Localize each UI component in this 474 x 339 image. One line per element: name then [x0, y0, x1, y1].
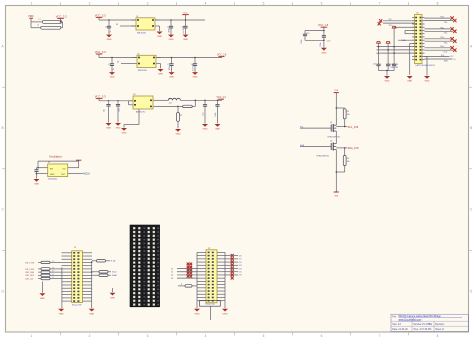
ground	[158, 64, 164, 76]
power port VCC_2V8	[182, 12, 188, 20]
svg-text:GND: GND	[110, 297, 115, 299]
svg-text:2: 2	[89, 1, 91, 5]
svg-text:B: B	[470, 126, 472, 130]
svg-text:IMX219 Camera Lattice MachXO2: IMX219 Camera Lattice MachXO2 Bridge	[399, 315, 442, 318]
svg-text:Raspi CSI: Raspi CSI	[72, 304, 82, 306]
capacitor C5	[168, 57, 174, 72]
svg-text:R1: R1	[180, 115, 182, 117]
power port VDD	[28, 14, 34, 22]
svg-text:NTR4003NT1G: NTR4003NT1G	[328, 136, 341, 138]
svg-text:GND: GND	[183, 39, 188, 41]
svg-text:IO0: IO0	[239, 255, 242, 257]
svg-text:GND: GND	[89, 313, 94, 315]
capacitor C3	[182, 19, 188, 34]
svg-text:D2: D2	[171, 275, 173, 277]
inductor L4	[158, 98, 223, 104]
svg-text:GND: GND	[169, 77, 174, 79]
svg-text:C12: C12	[306, 33, 309, 35]
wire 3.3V rail	[99, 19, 205, 21]
svg-text:TX2-: TX2-	[444, 43, 448, 45]
wire input rail	[99, 100, 133, 102]
svg-text:P1: P1	[74, 247, 76, 249]
svg-text:AP3417C: AP3417C	[136, 110, 146, 113]
svg-text:R4: R4	[347, 158, 349, 160]
svg-text:L1: L1	[39, 19, 41, 21]
svg-text:CSI1_CN: CSI1_CN	[25, 278, 34, 280]
svg-text:100n: 100n	[301, 40, 303, 44]
svg-text:100n: 100n	[119, 108, 121, 112]
svg-text:1: 1	[31, 1, 33, 5]
wire SCA	[398, 39, 415, 42]
wire top rail	[38, 161, 79, 168]
wire	[336, 153, 338, 193]
ground	[215, 109, 221, 131]
svg-text:File:: File:	[392, 317, 397, 319]
capacitor C10	[215, 100, 219, 117]
resistor R7	[92, 274, 117, 277]
op-amp U1 regulator MIC5205	[132, 16, 160, 35]
power port VCC_1.8	[334, 90, 339, 124]
ground	[183, 35, 189, 42]
svg-text:GND: GND	[157, 36, 162, 38]
wire	[210, 306, 212, 320]
svg-text:100n: 100n	[320, 43, 322, 47]
svg-text:P2: P2	[208, 248, 210, 250]
svg-text:TX1+: TX1+	[440, 27, 444, 29]
svg-text:GND: GND	[203, 129, 208, 131]
svg-text:Raspi 15p: Raspi 15p	[206, 304, 216, 306]
wire	[61, 22, 63, 28]
wire	[425, 56, 428, 75]
svg-text:R3: R3	[347, 111, 349, 113]
svg-text:GND: GND	[110, 77, 115, 79]
svg-text:U3: U3	[133, 94, 135, 96]
svg-text:VCC_3.3: VCC_3.3	[95, 13, 106, 17]
capacitor C2	[167, 19, 173, 34]
wire H2	[377, 49, 415, 51]
svg-text:D1: D1	[171, 272, 173, 274]
mounting box	[200, 301, 221, 307]
ground	[39, 282, 45, 300]
label Oscillator	[49, 155, 62, 159]
ground	[34, 174, 40, 186]
svg-text:GND: GND	[321, 52, 326, 54]
ground	[157, 26, 163, 38]
wire cap commons	[379, 68, 395, 76]
svg-text:10k: 10k	[347, 161, 350, 163]
title block	[391, 314, 469, 331]
wire right bus	[91, 261, 93, 308]
ground	[110, 288, 116, 299]
capacitor C13	[320, 31, 330, 47]
svg-text:2: 2	[89, 334, 91, 338]
capacitor C6	[191, 57, 197, 72]
svg-text:IO3: IO3	[239, 265, 242, 267]
wire EN input	[117, 62, 137, 64]
svg-text:3: 3	[147, 334, 149, 338]
svg-text:6: 6	[321, 334, 323, 338]
label SDA_1V8	[336, 147, 359, 150]
svg-text:B: B	[2, 126, 4, 130]
svg-text:VD: VD	[63, 168, 66, 170]
capacitor C12	[301, 32, 309, 44]
svg-text:X1: X1	[48, 162, 50, 164]
svg-text:GND: GND	[107, 39, 112, 41]
svg-text:GND: GND	[122, 133, 127, 135]
svg-text:VCC_3.3: VCC_3.3	[95, 50, 106, 54]
transistor Q2 NTR4003	[317, 141, 337, 158]
wire EN input	[116, 24, 136, 26]
svg-text:TDI: TDI	[389, 19, 392, 21]
svg-text:Oscillator: Oscillator	[49, 155, 62, 159]
svg-text:VCC_3.3: VCC_3.3	[95, 95, 106, 99]
capacitor C11	[34, 168, 38, 175]
wire	[128, 101, 130, 105]
svg-text:7: 7	[379, 334, 381, 338]
svg-text:GND: GND	[34, 184, 39, 186]
ground	[89, 309, 95, 316]
svg-text:4: 4	[205, 334, 207, 338]
svg-text:CSI_P 1V8: CSI_P 1V8	[25, 262, 34, 264]
ground	[321, 48, 327, 55]
transistor Q1 NTR4003	[328, 122, 341, 138]
svg-text:1u: 1u	[113, 68, 115, 70]
svg-text:GND: GND	[193, 77, 198, 79]
op-amp U4 LATTICE MACHXO2	[412, 13, 436, 67]
power port VCC_3.3	[95, 13, 106, 20]
svg-text:V1.1 BBG: V1.1 BBG	[422, 324, 432, 326]
power port VCC_3.3	[56, 14, 67, 22]
wire	[335, 134, 337, 143]
port symbol VCC2	[386, 41, 390, 62]
svg-text:C14: C14	[373, 64, 376, 66]
power port 3V3 bottom	[334, 192, 339, 197]
op-amp P1 camera connector	[62, 247, 93, 306]
power port VCC_2.8	[217, 55, 227, 58]
svg-text:GND: GND	[158, 74, 163, 76]
svg-text:470p: 470p	[169, 28, 171, 32]
svg-text:5: 5	[263, 1, 265, 5]
ferrite bead L1	[39, 19, 62, 24]
svg-text:10u: 10u	[103, 109, 105, 112]
svg-text:C13: C13	[327, 41, 330, 43]
svg-text:U2: U2	[137, 54, 139, 56]
wire I2C pair	[425, 55, 457, 63]
svg-text:IO5: IO5	[239, 272, 242, 274]
ground	[109, 72, 115, 79]
svg-text:Q1: Q1	[330, 122, 332, 124]
svg-text:IO1: IO1	[239, 259, 242, 261]
power port VCC_1.8	[318, 24, 329, 30]
svg-text:IO2: IO2	[239, 262, 242, 264]
svg-text:CLK-: CLK-	[443, 52, 447, 54]
wire	[305, 30, 325, 32]
svg-text:CLK+: CLK+	[440, 46, 445, 48]
svg-text:C4: C4	[108, 64, 110, 66]
svg-text:TX2+: TX2+	[440, 37, 444, 39]
wire FB line	[158, 106, 183, 108]
power port	[76, 159, 81, 162]
capacitor C15	[386, 62, 399, 68]
svg-text:TX0-: TX0-	[444, 22, 448, 24]
op-amp U2 regulator MIC5205	[133, 54, 161, 73]
svg-text:EN: EN	[50, 168, 53, 170]
svg-text:7: 7	[379, 1, 381, 5]
svg-text:U1: U1	[136, 16, 138, 18]
op-amp U3 buck AP3417C	[129, 94, 158, 113]
svg-text:C5: C5	[168, 64, 170, 66]
svg-text:Revision:: Revision:	[435, 324, 445, 326]
node TDI no-ERC pair	[378, 19, 415, 27]
no-ERC marks right	[231, 254, 234, 280]
wire SCL gate	[300, 126, 331, 128]
svg-text:IO4: IO4	[239, 268, 242, 270]
svg-text:VDD: VDD	[28, 14, 34, 18]
ground	[202, 109, 208, 131]
svg-text:6: 6	[321, 1, 323, 5]
wire pair TX0+/TX0-	[425, 16, 457, 24]
svg-text:2u2 6V3: 2u2 6V3	[183, 26, 185, 33]
svg-text:L2: L2	[37, 25, 39, 27]
svg-text:LATTICE MACHXO2: LATTICE MACHXO2	[416, 64, 436, 67]
ground	[175, 129, 181, 136]
power port VCC_3.3	[95, 95, 106, 101]
ground	[106, 108, 112, 129]
svg-text:MIC5205: MIC5205	[137, 33, 147, 35]
svg-text:MCLK: MCLK	[83, 173, 90, 176]
ground	[192, 72, 198, 79]
resistor R5	[92, 260, 116, 263]
svg-text:100n 16V: 100n 16V	[390, 67, 398, 69]
resistor network CSI left	[25, 261, 62, 281]
svg-text:SCL0: SCL0	[112, 272, 117, 274]
svg-text:GND: GND	[425, 81, 430, 83]
ground	[58, 309, 64, 316]
svg-text:OUT: OUT	[61, 174, 66, 176]
connector J1 stacking header	[130, 225, 160, 307]
wire drop	[410, 43, 415, 74]
svg-text:GND: GND	[176, 134, 181, 136]
wire pair TX2+/TX2-	[425, 37, 457, 45]
ground	[115, 108, 121, 129]
capacitor C4	[108, 57, 115, 72]
svg-text:SDA0: SDA0	[112, 274, 117, 277]
wire right bus	[224, 252, 226, 308]
resistor R3	[343, 109, 349, 127]
svg-text:TX0+: TX0+	[440, 17, 444, 19]
wire right nets	[225, 255, 242, 276]
svg-text:GND: GND	[59, 313, 64, 315]
wire H3	[377, 52, 415, 54]
svg-text:10u: 10u	[203, 113, 205, 116]
svg-text:CSI1_DN0: CSI1_DN0	[25, 272, 34, 274]
label SCL_1V8	[336, 126, 359, 129]
svg-text:R 10k: R 10k	[111, 261, 116, 263]
svg-text:Time: 4:17:34 PM: Time: 4:17:34 PM	[413, 329, 431, 331]
svg-text:C1: C1	[105, 27, 107, 29]
power port VCC_3.3	[95, 50, 106, 58]
svg-text:4: 4	[205, 1, 207, 5]
wire MCLK	[72, 173, 91, 176]
svg-text:GND: GND	[215, 129, 220, 131]
svg-text:2u2 6V3: 2u2 6V3	[193, 64, 195, 71]
op-amp P2 raspi connector	[197, 248, 225, 303]
port symbol VCC1	[377, 41, 381, 62]
svg-text:www.CircuitValley.com: www.CircuitValley.com	[399, 318, 422, 321]
wire SDA gate	[300, 144, 331, 147]
wire 2.8V rail	[99, 57, 222, 59]
svg-text:1: 1	[31, 334, 33, 338]
ground	[384, 76, 390, 83]
svg-text:CSI1_DP0: CSI1_DP0	[25, 275, 34, 277]
svg-text:SCL: SCL	[300, 126, 304, 128]
svg-text:3: 3	[147, 1, 149, 5]
resistor R6	[92, 271, 117, 274]
ferrite bead L2	[37, 25, 61, 29]
svg-text:VCC_3.3: VCC_3.3	[56, 14, 67, 18]
svg-text:IO6: IO6	[239, 275, 242, 277]
power port VCC_1.2	[217, 97, 227, 100]
svg-text:GND: GND	[50, 174, 55, 176]
svg-text:GND: GND	[407, 81, 412, 83]
ground U3	[121, 109, 139, 135]
wire pair TX1+/TX1-	[425, 27, 457, 35]
capacitor C1	[105, 19, 112, 34]
svg-text:D0: D0	[171, 268, 173, 270]
ground	[407, 76, 413, 83]
ground	[194, 309, 200, 316]
svg-text:100n: 100n	[215, 113, 217, 117]
wire branch	[336, 107, 345, 109]
svg-text:GND: GND	[116, 128, 121, 130]
svg-text:8: 8	[437, 334, 439, 338]
svg-text:DSC6011: DSC6011	[48, 178, 58, 180]
ground	[169, 72, 175, 79]
ground	[424, 76, 430, 83]
svg-text:GND: GND	[169, 39, 174, 41]
svg-text:470p: 470p	[169, 66, 171, 70]
capacitor C9	[203, 100, 207, 116]
svg-text:1u: 1u	[110, 30, 112, 32]
svg-text:Sheet of: Sheet of	[435, 328, 444, 331]
svg-text:C2: C2	[167, 27, 169, 29]
resistor R4	[336, 148, 349, 172]
wire	[305, 38, 325, 48]
svg-text:GND: GND	[195, 313, 200, 315]
svg-text:Number:: Number:	[413, 323, 422, 326]
svg-text:10k: 10k	[347, 114, 350, 116]
resistor R8	[178, 284, 197, 287]
svg-text:SCL: SCL	[441, 55, 445, 57]
svg-text:4u7: 4u7	[169, 102, 172, 104]
svg-text:Q2: Q2	[330, 141, 332, 143]
svg-text:GND: GND	[106, 128, 111, 130]
svg-text:TX1-: TX1-	[444, 33, 448, 35]
svg-text:SCL_1V8: SCL_1V8	[348, 126, 359, 129]
svg-text:Size: A3: Size: A3	[392, 323, 401, 326]
ground	[168, 35, 174, 42]
svg-text:VCC: VCC	[183, 12, 188, 14]
capacitor C16	[390, 62, 398, 69]
resistor R1 fb bottom	[177, 106, 183, 128]
svg-text:D3: D3	[171, 278, 173, 280]
svg-text:GND: GND	[223, 313, 228, 315]
svg-text:GND: GND	[385, 81, 390, 83]
no-ERC marks left	[187, 263, 192, 278]
wire	[31, 22, 42, 28]
wire row4	[405, 30, 415, 33]
ground	[106, 35, 112, 42]
resistor R2 fb top	[183, 100, 196, 108]
wire left bus	[196, 252, 198, 308]
svg-text:MIC5205: MIC5205	[138, 70, 148, 72]
svg-text:U4: U4	[416, 13, 418, 15]
capacitor C7	[103, 100, 110, 112]
svg-text:8: 8	[437, 1, 439, 5]
svg-text:SDA_1V8: SDA_1V8	[348, 147, 360, 150]
wire pair CLK+/CLK-	[425, 46, 457, 54]
capacitor C14	[373, 62, 381, 68]
svg-text:5: 5	[263, 334, 265, 338]
port symbol JTAG	[392, 26, 414, 62]
svg-text:GND: GND	[40, 298, 45, 300]
wire left nets	[171, 268, 197, 280]
wire	[37, 167, 79, 174]
ground	[222, 309, 228, 316]
svg-text:CSI_P 3V3: CSI_P 3V3	[25, 269, 34, 271]
wire left bus	[61, 267, 63, 308]
op-amp X1 oscillator	[44, 162, 72, 180]
capacitor C8	[116, 100, 121, 112]
svg-text:Date: 21-04-20: Date: 21-04-20	[392, 328, 408, 331]
wire H1	[377, 46, 415, 48]
svg-text:NTR4003NT1G: NTR4003NT1G	[317, 156, 330, 158]
